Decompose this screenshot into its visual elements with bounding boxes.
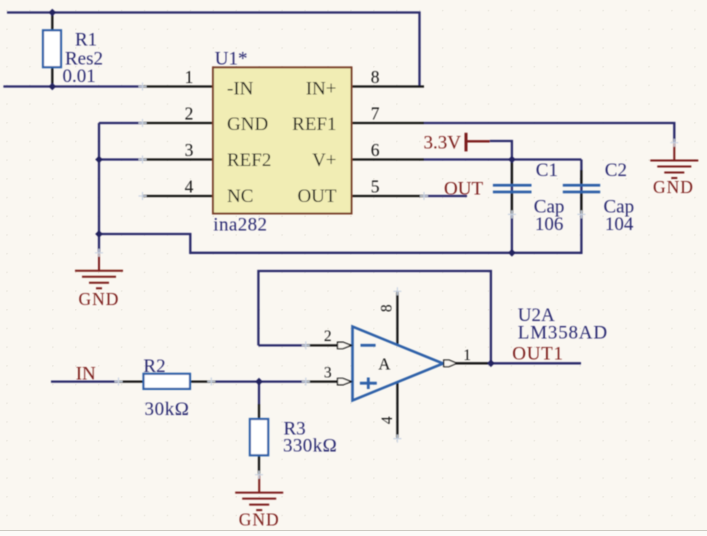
svg-text:5: 5 bbox=[371, 177, 380, 197]
svg-text:IN: IN bbox=[76, 363, 96, 384]
svg-text:1: 1 bbox=[185, 67, 194, 87]
svg-text:2: 2 bbox=[185, 104, 194, 124]
svg-text:REF2: REF2 bbox=[227, 150, 271, 171]
svg-text:8: 8 bbox=[379, 304, 396, 312]
svg-text:GND: GND bbox=[227, 114, 268, 135]
svg-text:GND: GND bbox=[79, 289, 120, 309]
svg-text:REF1: REF1 bbox=[292, 114, 336, 135]
svg-text:2: 2 bbox=[324, 328, 332, 345]
svg-text:OUT: OUT bbox=[444, 179, 483, 200]
svg-text:1: 1 bbox=[463, 347, 471, 364]
svg-text:LM358AD: LM358AD bbox=[518, 323, 608, 344]
svg-text:U1*: U1* bbox=[215, 49, 248, 70]
svg-text:OUT: OUT bbox=[297, 186, 336, 207]
svg-text:3.3V: 3.3V bbox=[424, 132, 462, 153]
svg-text:-IN: -IN bbox=[227, 78, 254, 99]
svg-text:0.01: 0.01 bbox=[63, 66, 96, 87]
svg-text:30kΩ: 30kΩ bbox=[145, 399, 190, 420]
svg-text:6: 6 bbox=[371, 140, 380, 160]
svg-text:IN+: IN+ bbox=[306, 78, 337, 99]
svg-text:R1: R1 bbox=[75, 30, 97, 51]
svg-text:7: 7 bbox=[371, 104, 380, 124]
svg-text:4: 4 bbox=[185, 177, 194, 197]
svg-text:NC: NC bbox=[227, 186, 253, 207]
svg-text:A: A bbox=[378, 355, 391, 374]
svg-text:R2: R2 bbox=[143, 356, 165, 377]
svg-text:C2: C2 bbox=[605, 160, 627, 181]
svg-text:330kΩ: 330kΩ bbox=[283, 435, 337, 456]
svg-text:C1: C1 bbox=[536, 160, 558, 181]
svg-text:8: 8 bbox=[371, 67, 380, 87]
svg-text:GND: GND bbox=[239, 509, 280, 529]
svg-text:GND: GND bbox=[653, 177, 694, 197]
svg-text:4: 4 bbox=[379, 416, 396, 424]
svg-text:106: 106 bbox=[535, 214, 564, 235]
svg-text:V+: V+ bbox=[312, 150, 336, 171]
svg-text:OUT1: OUT1 bbox=[512, 344, 563, 365]
svg-text:104: 104 bbox=[605, 214, 634, 235]
svg-text:3: 3 bbox=[185, 140, 194, 160]
svg-text:3: 3 bbox=[324, 364, 332, 381]
svg-text:ina282: ina282 bbox=[213, 215, 267, 236]
